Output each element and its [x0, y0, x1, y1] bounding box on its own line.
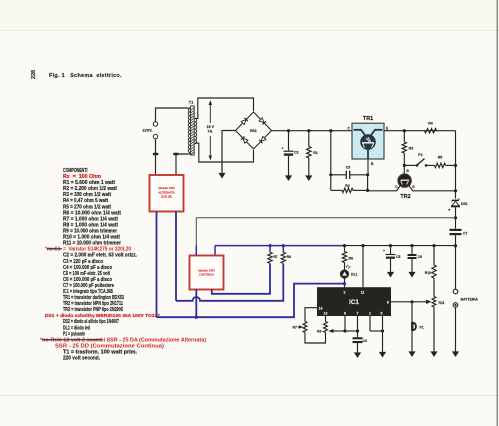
ground [408, 272, 415, 278]
capacitor C6 [411, 246, 413, 254]
svg-text:RS1: RS1 [250, 129, 257, 133]
wire pin1 pin5 [369, 316, 371, 331]
svg-text:R6 = 10.000 ohm 1/4 watt: R6 = 10.000 ohm 1/4 watt [63, 210, 121, 216]
svg-text:C3: C3 [346, 166, 351, 170]
wire blue continua bottom-right to R7 [212, 264, 270, 294]
pushbutton P1 [411, 302, 413, 352]
ground [379, 352, 386, 358]
resistor R7 (blue) [269, 246, 271, 253]
wire mains top to primary [156, 108, 189, 122]
resistor R10 [433, 246, 435, 265]
wire blue bottom bus [157, 284, 345, 318]
ground [387, 272, 394, 278]
module SSR alternata [150, 175, 184, 212]
svg-text:R8 = 1.000 ohm 1/4 watt: R8 = 1.000 ohm 1/4 watt [63, 222, 118, 228]
svg-text:E: E [413, 185, 415, 189]
trimmer R9 [324, 322, 328, 333]
ground [452, 351, 459, 357]
capacitor C7 [450, 229, 462, 231]
wire blue alternata left pin down [156, 212, 158, 318]
svg-text:IC1 = integrato tipo TCA.965: IC1 = integrato tipo TCA.965 [63, 289, 113, 295]
module SSR continua [190, 256, 224, 290]
svg-text:R7: R7 [293, 326, 297, 330]
svg-text:15 V: 15 V [207, 125, 215, 129]
connector bar [173, 153, 179, 155]
wire pin13 [325, 316, 327, 322]
ground [305, 175, 312, 181]
transistor TR1 [352, 123, 384, 159]
svg-text:(10N.26): (10N.26) [161, 194, 172, 198]
wire pin7 to C4 [357, 316, 359, 337]
node BATTERIA terminals [453, 289, 458, 294]
op-amp IC1 TCA965 [317, 287, 391, 316]
resistor R5 [435, 163, 446, 167]
svg-text:TR2: TR2 [400, 194, 410, 200]
junction dots on +V rail [287, 129, 290, 132]
svg-text:R9: R9 [317, 330, 321, 334]
svg-text:+: + [281, 146, 283, 150]
svg-text:C2 = 2.000 mF eletr. 63 volt o: C2 = 2.000 mF eletr. 63 volt orizz. [63, 253, 138, 259]
svg-text:R6: R6 [349, 256, 354, 260]
svg-text:C7: C7 [463, 232, 467, 236]
led DL1 [340, 270, 348, 278]
svg-text:5: 5 [381, 311, 383, 315]
resistor R6 [344, 246, 346, 252]
svg-text:*no-C1 = Varistor S14K275 or: *no-C1 = Varistor S14K275 or 320L20 [45, 247, 131, 253]
svg-text:R2: R2 [345, 184, 350, 188]
svg-text:BATTERIA: BATTERIA [461, 298, 479, 302]
svg-text:13: 13 [324, 311, 328, 315]
wire bridge minus to ground [222, 131, 236, 173]
ground [221, 162, 223, 173]
capacitor C4 [353, 337, 363, 339]
svg-text:220 volt second.: 220 volt second. [63, 356, 101, 362]
svg-text:R3: R3 [409, 147, 414, 151]
trimmer R7 [303, 322, 307, 333]
svg-text:8: 8 [387, 300, 389, 304]
svg-text:R7: R7 [274, 255, 278, 259]
svg-text:R5: R5 [438, 156, 443, 160]
wire C3/R2 column [330, 131, 332, 191]
svg-text:R11: R11 [439, 301, 445, 305]
wire primary bottom [176, 154, 190, 175]
capacitor C3 [331, 174, 346, 176]
wire trimmer bottoms [305, 333, 326, 344]
junction dots on distribution line [343, 244, 346, 247]
switch P1 [403, 164, 406, 167]
svg-text:TR2 = transistor NPN tipo 2N17: TR2 = transistor NPN tipo 2N1711 [63, 301, 123, 307]
svg-text:7A.: 7A. [207, 130, 213, 134]
svg-text:C2: C2 [294, 151, 299, 155]
wire pin8 with wiper arrow [391, 301, 427, 303]
junction nodes C3/R2 [329, 173, 332, 176]
wire blue alternata right pin down [175, 212, 177, 301]
svg-text:14: 14 [319, 307, 323, 311]
wire control line to SSR continua [196, 217, 455, 219]
svg-text:Fig. 1 Schema elettrico.: Fig. 1 Schema elettrico. [49, 73, 122, 79]
svg-text:R1: R1 [313, 151, 318, 155]
svg-text:C7 = 100.000 pF poliestere: C7 = 100.000 pF poliestere [63, 283, 114, 289]
svg-text:T1: T1 [189, 100, 194, 105]
ground [408, 351, 415, 357]
wire TR2 emitter [409, 186, 455, 191]
svg-text:C4: C4 [363, 339, 367, 343]
wire blue with hop to R8 [176, 264, 283, 301]
resistor R4 [425, 129, 437, 133]
capacitor C2 [288, 131, 290, 151]
svg-text:228: 228 [31, 70, 37, 79]
svg-text:6: 6 [344, 311, 346, 315]
svg-text:C5: C5 [396, 255, 400, 259]
wire pin11 [362, 246, 364, 288]
svg-text:COMPONENTI: COMPONENTI [63, 168, 88, 174]
capacitor C5 [390, 246, 392, 254]
wire main +V rail [272, 130, 353, 132]
transistor TR2 [403, 165, 405, 174]
wire TR2 collector [368, 186, 400, 191]
svg-text:R10: R10 [425, 271, 431, 275]
resistor R3 [403, 131, 405, 142]
svg-text:+: + [383, 249, 385, 253]
wire blue continua top-left control [195, 245, 197, 255]
wire battery minus down [455, 307, 457, 351]
wire pin14 [305, 308, 317, 322]
bridge rectifier RS1 [236, 112, 272, 149]
svg-text:R8: R8 [287, 255, 291, 259]
svg-text:TR1: TR1 [363, 116, 373, 122]
wire +12V distribution (blue segment) [215, 245, 345, 247]
svg-text:DS1: DS1 [461, 202, 468, 206]
svg-text:IC1: IC1 [349, 299, 359, 306]
wire secondary top to bridge [195, 98, 254, 118]
svg-text:2: 2 [344, 291, 346, 295]
svg-text:C5 = 100 mF eletr. 25 volt: C5 = 100 mF eletr. 25 volt [63, 271, 110, 277]
wire blue continua bottom-left down [195, 290, 197, 318]
wire DL1 to IC pin2 [344, 278, 346, 287]
ground [354, 352, 361, 358]
svg-text:DS2 = diodo al silicio tipo 1N: DS2 = diodo al silicio tipo 1N4007 [63, 319, 119, 325]
svg-text:SSR - 25 DD (Commutazione Cont: SSR - 25 DD (Commutazione Continua) [55, 343, 164, 349]
svg-text:7: 7 [357, 311, 359, 315]
trimmer R11 [432, 297, 436, 308]
svg-text:R4 = 0,47 ohm 5 watt: R4 = 0,47 ohm 5 watt [63, 198, 108, 204]
wire distribution (black segment) [345, 245, 456, 247]
ground [430, 351, 437, 357]
ground [285, 175, 292, 181]
svg-text:R4: R4 [428, 121, 433, 125]
resistor R8 (blue) [282, 246, 284, 253]
svg-text:C6: C6 [418, 255, 422, 259]
wire secondary bottom to bridge [195, 143, 254, 162]
resistor R1 [308, 131, 310, 147]
svg-text:T1 = trasform. 100 watt prim.: T1 = trasform. 100 watt prim. [63, 350, 138, 356]
wire mains bottom to SSR alternata [155, 139, 157, 175]
wire right column [455, 131, 457, 199]
svg-text:R1 = 5.600 ohm 1 watt: R1 = 5.600 ohm 1 watt [63, 180, 115, 186]
svg-text:1: 1 [369, 311, 371, 315]
svg-text:P1 = pulsante: P1 = pulsante [63, 331, 85, 337]
svg-text:DS1 + diodo schottky MBR30100: DS1 + diodo schottky MBR30100 30A 100V T… [45, 313, 161, 318]
wire TR1 base [367, 159, 369, 175]
svg-text:P1: P1 [420, 326, 424, 330]
svg-text:220V.: 220V. [142, 128, 152, 133]
svg-text:11: 11 [361, 291, 365, 295]
diode DS1 [452, 199, 459, 201]
svg-text:R9 = 10.000 ohm trimmer: R9 = 10.000 ohm trimmer [63, 229, 117, 235]
wire pin6 wiper arrow [344, 316, 346, 331]
resistor R2 [331, 189, 342, 191]
svg-text:P1: P1 [418, 153, 422, 157]
svg-text:DL1: DL1 [351, 273, 358, 277]
connector bar [153, 153, 159, 155]
svg-text:CONTINUA: CONTINUA [199, 273, 214, 277]
